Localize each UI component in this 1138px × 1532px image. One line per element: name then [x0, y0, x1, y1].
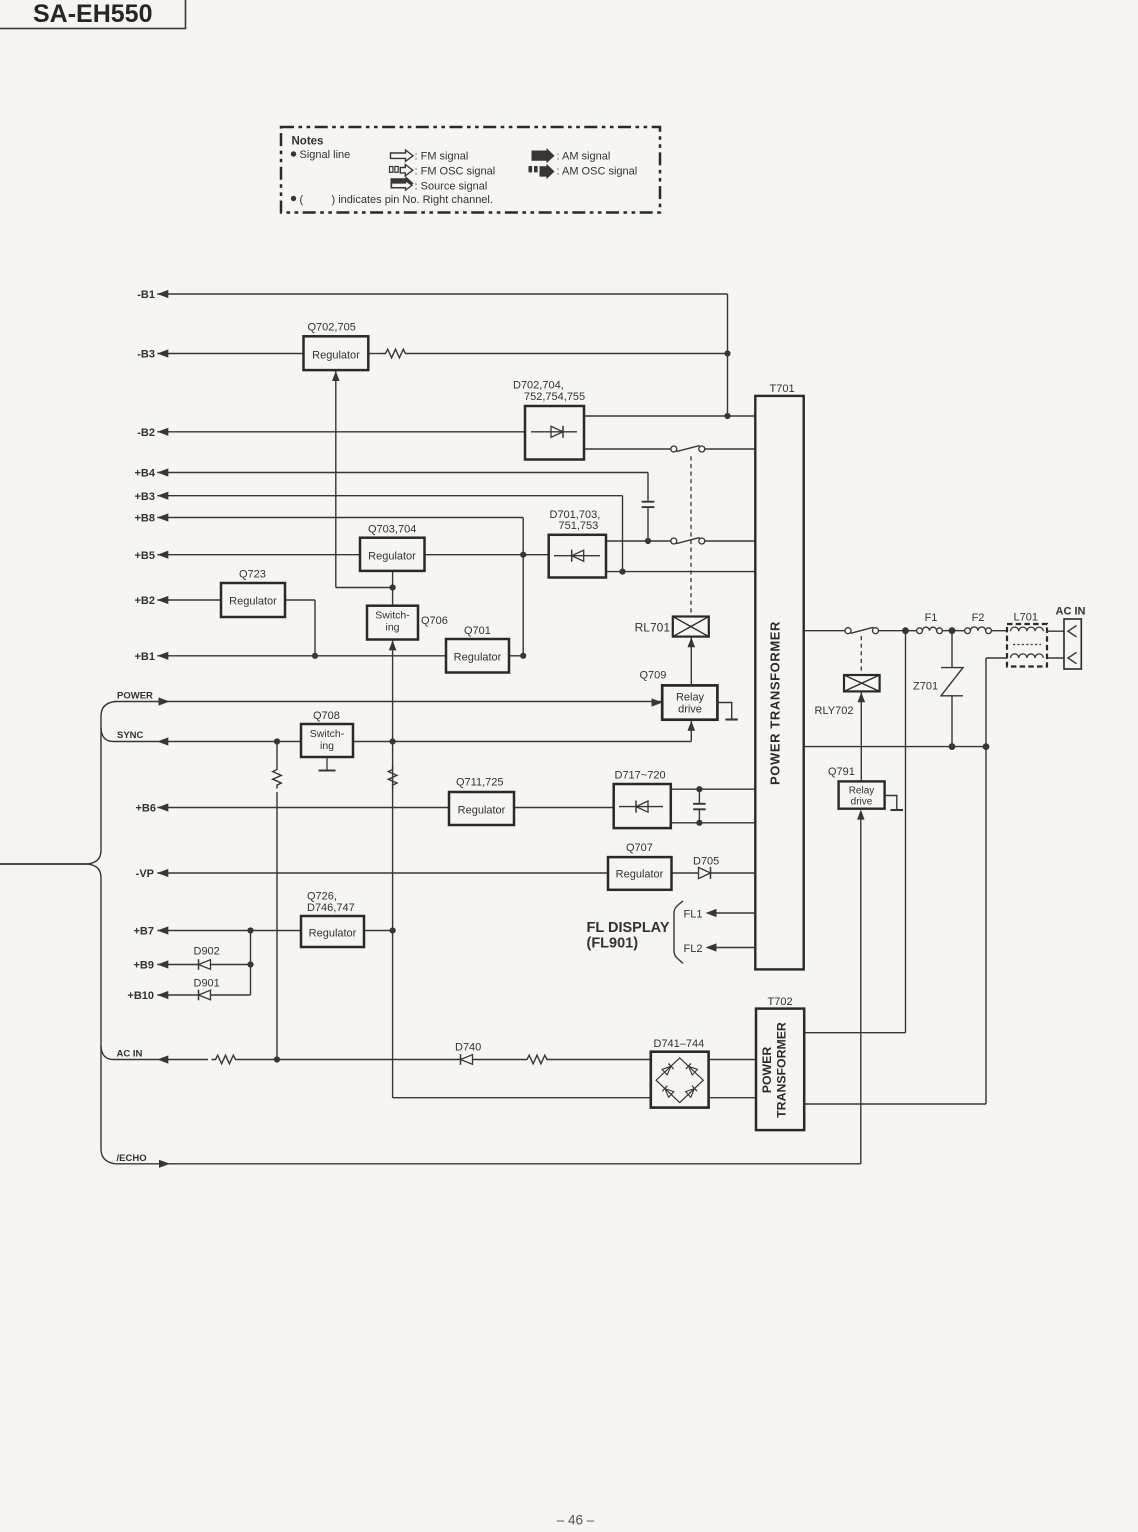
- fuse F2: [965, 628, 971, 634]
- wire T702 right top: [804, 1032, 905, 1034]
- svg-text:Q711,725: Q711,725: [456, 777, 504, 789]
- switch S2 on D701 line: [671, 538, 677, 544]
- wire -VP regulator to D705: [672, 872, 699, 874]
- svg-text:AC IN: AC IN: [117, 1049, 143, 1060]
- svg-text:T701: T701: [770, 383, 795, 395]
- node +B7/x392 junction: [390, 927, 396, 933]
- wire F1 to F2: [942, 630, 964, 632]
- svg-text:Regulator: Regulator: [368, 551, 416, 563]
- svg-text:– 46 –: – 46 –: [557, 1513, 595, 1528]
- arrow SYNC: [157, 737, 168, 745]
- svg-text:+B5: +B5: [135, 550, 156, 562]
- power transformer T701: [755, 396, 803, 970]
- regulator Q701: [446, 639, 509, 673]
- wire +B7 regulator to bus: [364, 930, 393, 932]
- arrow POWER into Q709: [652, 698, 663, 706]
- notes signal line bullet: [291, 151, 296, 156]
- svg-text:FL DISPLAY: FL DISPLAY: [587, 920, 670, 936]
- svg-text:POWER: POWER: [760, 1047, 774, 1094]
- node capacitor/S2 junction: [645, 538, 651, 544]
- svg-text:D705: D705: [693, 855, 719, 867]
- svg-text:Regulator: Regulator: [309, 928, 357, 940]
- svg-text:FL1: FL1: [684, 909, 703, 921]
- mains switch S3: [845, 628, 851, 634]
- arrow POWER: [159, 697, 170, 705]
- wire to bridge: [551, 1059, 651, 1061]
- wire Q709 to RL701: [690, 638, 692, 686]
- wire L701 to AC connector top: [1047, 630, 1064, 632]
- wire /ECHO: [116, 1163, 861, 1165]
- arrow -B1: [157, 290, 168, 298]
- svg-text:: AM OSC signal: : AM OSC signal: [557, 166, 638, 178]
- node cap top junction: [696, 786, 702, 792]
- svg-text:: Source signal: : Source signal: [415, 181, 488, 193]
- svg-text:ing: ing: [320, 740, 334, 752]
- svg-text:F1: F1: [925, 612, 938, 624]
- wire +B4: [157, 472, 648, 474]
- svg-text:) indicates pin No. Right chan: ) indicates pin No. Right channel.: [332, 194, 493, 206]
- svg-text:751,753: 751,753: [559, 520, 599, 532]
- svg-text:ing: ing: [385, 622, 399, 634]
- svg-text:(FL901): (FL901): [587, 936, 639, 952]
- wire D701 top output to switch S2: [606, 540, 671, 542]
- wire POWER: [114, 701, 663, 703]
- node +B3/D701 junction: [619, 569, 625, 575]
- svg-text:-B3: -B3: [137, 349, 155, 361]
- svg-text:D702,704,: D702,704,: [513, 380, 564, 392]
- svg-text:-B1: -B1: [137, 289, 155, 301]
- wire -B1: [157, 293, 727, 295]
- wire D717 top output: [671, 788, 756, 790]
- svg-text:+B9: +B9: [134, 960, 155, 972]
- resistor on x392 bus: [388, 766, 397, 789]
- wire T702 right bottom: [804, 1103, 986, 1105]
- wire -B2: [157, 431, 525, 433]
- svg-text:+B6: +B6: [136, 802, 157, 814]
- wire D901 to branch corner: [211, 994, 251, 996]
- legend FM OSC squares: [390, 167, 393, 173]
- wire Q791 to RLY702: [860, 691, 862, 700]
- regulator Q702,705: [304, 336, 369, 370]
- wire bus corner to bridge bottom: [393, 1097, 651, 1099]
- diode block D717~720: [614, 784, 671, 828]
- node mains junction x905: [902, 627, 909, 634]
- wire +B10 left: [157, 994, 198, 996]
- svg-text:POWER: POWER: [117, 690, 153, 701]
- svg-text:D740: D740: [455, 1042, 481, 1054]
- ground below Q708: [326, 757, 328, 771]
- node mains junction x952: [949, 627, 956, 634]
- svg-text:Q723: Q723: [239, 569, 266, 581]
- svg-text:AC IN: AC IN: [1056, 606, 1086, 618]
- arrow /ECHO: [159, 1160, 170, 1168]
- node AC IN/x277 junction: [274, 1056, 280, 1062]
- node L701 return junction: [983, 743, 990, 750]
- svg-text:Q708: Q708: [313, 710, 340, 722]
- svg-text:+B3: +B3: [135, 491, 156, 503]
- svg-text:D902: D902: [194, 946, 220, 958]
- regulator Q726,D746,747: [301, 916, 364, 947]
- wire branch up to Q702: [335, 370, 337, 587]
- svg-text:Relay: Relay: [849, 786, 875, 797]
- wire -VP left: [157, 872, 608, 874]
- regulator Q703,704: [360, 538, 425, 571]
- svg-text:Signal line: Signal line: [300, 149, 351, 161]
- node Q706 branch junction: [390, 584, 396, 590]
- wire L701 bottom to corner: [986, 657, 1007, 659]
- legend AM OSC squares: [529, 166, 533, 172]
- diode block D701,703,751,753: [549, 535, 606, 578]
- svg-text:752,754,755: 752,754,755: [524, 391, 585, 403]
- arrow +B6: [157, 803, 168, 811]
- arrow -B2: [157, 428, 168, 436]
- ground right of Q709: [717, 703, 731, 720]
- svg-text:+B8: +B8: [135, 513, 156, 525]
- diode D740: [461, 1055, 473, 1065]
- arrow +B4: [157, 468, 168, 476]
- notes legend box: [281, 127, 660, 213]
- svg-text:F2: F2: [972, 612, 985, 624]
- arrow +B2: [157, 596, 168, 604]
- diode D705: [699, 867, 711, 878]
- resistor on AC IN right: [523, 1055, 551, 1064]
- wire Q706 down to bus: [392, 640, 394, 1098]
- node +B2/+B1 junction: [312, 653, 318, 659]
- relay coil RLY702: [844, 675, 880, 691]
- svg-text:/ECHO: /ECHO: [117, 1153, 147, 1164]
- wire -B1 vertical to D702 output: [727, 294, 729, 416]
- resistor on x277 bus: [276, 742, 278, 767]
- svg-text:+B7: +B7: [134, 926, 155, 938]
- svg-text:Q709: Q709: [640, 670, 667, 682]
- svg-text:Z701: Z701: [913, 681, 938, 693]
- wire /ECHO up into Q791: [860, 819, 862, 1164]
- svg-text:Switch-: Switch-: [375, 610, 410, 622]
- svg-text:SYNC: SYNC: [117, 730, 144, 741]
- svg-text:D717~720: D717~720: [615, 770, 666, 782]
- wire +B9 left: [157, 964, 198, 966]
- arrow +B7: [157, 926, 168, 934]
- switching Q706: [367, 606, 418, 640]
- svg-text:FL2: FL2: [684, 943, 703, 955]
- wire FL2: [717, 947, 756, 949]
- wire -B3 to junction: [410, 353, 728, 355]
- svg-text:Q703,704: Q703,704: [368, 524, 416, 536]
- regulator Q707: [608, 857, 672, 890]
- svg-text:L701: L701: [1014, 612, 1038, 624]
- fuse F1: [917, 628, 923, 634]
- arrow into RL701: [688, 637, 696, 647]
- svg-text:RLY702: RLY702: [815, 705, 854, 717]
- svg-text:SA-EH550: SA-EH550: [33, 0, 153, 28]
- svg-text:Switch-: Switch-: [310, 728, 345, 740]
- legend AM signal arrow: [532, 148, 555, 163]
- power transformer T702: [756, 1009, 804, 1131]
- svg-text:drive: drive: [851, 797, 873, 808]
- regulator Q723: [221, 583, 285, 617]
- wire AC IN left: [114, 1059, 209, 1061]
- capacitor C1: [642, 501, 655, 503]
- arrow +B1: [157, 652, 168, 660]
- svg-text:(: (: [300, 194, 304, 206]
- wire bridge to T702 bottom: [709, 1097, 756, 1099]
- wire SYNC: [114, 741, 692, 743]
- wire bridge to T702 top: [709, 1059, 756, 1061]
- svg-text:Notes: Notes: [292, 136, 324, 148]
- node -B1/-B3 junction: [724, 350, 730, 356]
- wire +B2 regulator to corner: [285, 599, 315, 601]
- node SYNC/x277 junction: [274, 738, 280, 744]
- wire +B7 left: [157, 930, 301, 932]
- svg-text:D746,747: D746,747: [307, 902, 355, 914]
- wire D702 top output to transformer: [584, 415, 755, 417]
- wire +B7 branch vertical: [250, 931, 252, 996]
- svg-text:Relay: Relay: [676, 692, 705, 704]
- wire D717 bottom output: [671, 822, 756, 824]
- svg-text:drive: drive: [678, 704, 702, 716]
- FL brace: [674, 901, 683, 964]
- dashed link S3 to RLY702: [860, 636, 862, 675]
- switch S1 on D702 line: [671, 446, 677, 452]
- wire L701 return vertical: [985, 658, 987, 1104]
- node SYNC/x392 junction: [390, 738, 396, 744]
- wire +B8 down to +B1 corner: [522, 518, 524, 656]
- arrow FL1: [706, 909, 717, 917]
- arrow into Q709 bottom: [688, 721, 696, 731]
- wire -B3 left: [157, 353, 303, 355]
- arrow +B5: [157, 551, 168, 559]
- svg-text:D741–744: D741–744: [654, 1038, 705, 1050]
- wire branch to Q702 horizontal: [336, 587, 393, 589]
- wire +B5 left: [157, 554, 360, 556]
- wire D705 to transformer: [711, 872, 755, 874]
- wire +B5 regulator to D701: [425, 554, 549, 556]
- wire D701 bottom output to transformer: [606, 571, 756, 573]
- title box SA-EH550: [0, 0, 186, 29]
- relay drive Q709: [662, 685, 717, 719]
- wire L701 to AC connector bottom: [1047, 657, 1064, 659]
- line filter L701: [1007, 624, 1047, 667]
- wire switch S1 to transformer: [705, 448, 756, 450]
- svg-text:: AM signal: : AM signal: [557, 151, 611, 163]
- relay coil RL701: [673, 617, 709, 637]
- wire +B3: [157, 495, 622, 497]
- dashed link RL701 to switches: [690, 454, 692, 613]
- wire +B6 regulator to D717: [514, 807, 614, 809]
- bridge rectifier D741-744: [651, 1052, 709, 1108]
- svg-text:-B2: -B2: [137, 427, 155, 439]
- node +B1 corner: [520, 653, 526, 659]
- arrow into Q706: [389, 640, 397, 650]
- svg-text:-VP: -VP: [136, 868, 154, 880]
- ground right of Q791: [885, 796, 897, 811]
- node +B8/+B5 junction: [520, 552, 526, 558]
- wire +B2 corner down to +B1: [314, 600, 316, 656]
- wire capacitor to switch line: [647, 508, 649, 541]
- node +B9 branch: [247, 961, 253, 967]
- wire D740 to resistor: [473, 1059, 524, 1061]
- wire +B1 left: [157, 655, 446, 657]
- switching Q708: [301, 724, 353, 757]
- svg-text:RL701: RL701: [635, 620, 671, 634]
- arrow +B10: [157, 991, 168, 999]
- svg-text:Regulator: Regulator: [312, 350, 360, 362]
- legend Source signal arrow: [391, 176, 414, 191]
- arrow into Q702: [332, 371, 340, 381]
- capacitor C2: [698, 789, 700, 803]
- resistor on -B3: [382, 349, 410, 358]
- wire +B2 left: [157, 599, 221, 601]
- wire F2 to L701: [991, 630, 1007, 632]
- svg-text:Q706: Q706: [421, 615, 448, 627]
- svg-text:POWER TRANSFORMER: POWER TRANSFORMER: [768, 621, 783, 785]
- svg-text:Regulator: Regulator: [229, 596, 277, 608]
- arrow +B3: [157, 492, 168, 500]
- varistor Z701: [951, 631, 953, 668]
- svg-text:Q791: Q791: [828, 766, 855, 778]
- svg-text:: FM signal: : FM signal: [415, 151, 469, 163]
- arrow +B8: [157, 513, 168, 521]
- diode block D702,704,752,754,755: [525, 406, 584, 460]
- wire AC IN mid: [240, 1059, 461, 1061]
- wire +B6 left: [157, 807, 449, 809]
- arrow -VP: [157, 869, 168, 877]
- wire SYNC up into Q709: [690, 721, 692, 742]
- node cap bottom junction: [696, 820, 702, 826]
- arrow -B3: [157, 349, 168, 357]
- arrow +B9: [157, 960, 168, 968]
- svg-text:TRANSFORMER: TRANSFORMER: [775, 1022, 789, 1118]
- svg-text:Q702,705: Q702,705: [308, 322, 356, 334]
- wire x905 down to T702: [905, 631, 907, 1033]
- wire T701 to mains switch: [804, 630, 845, 632]
- arrow FL2: [706, 943, 717, 951]
- svg-text:D701,703,: D701,703,: [550, 509, 601, 521]
- wire D902 to branch: [211, 964, 251, 966]
- wire D702 bottom output to switch: [584, 448, 671, 450]
- node -B1/D702 junction: [724, 413, 730, 419]
- wire T701 right return: [804, 746, 986, 748]
- svg-text:Q726,: Q726,: [307, 891, 337, 903]
- notes pin number bullet: [291, 196, 296, 201]
- svg-text:D901: D901: [194, 978, 220, 990]
- relay drive Q791: [839, 781, 885, 808]
- node Z701 return junction: [949, 743, 956, 750]
- legend AM OSC arrow: [540, 164, 555, 179]
- arrow AC IN: [157, 1055, 168, 1063]
- legend FM signal arrow: [391, 150, 414, 161]
- wire switch S2 to transformer: [705, 540, 756, 542]
- regulator Q711,725: [449, 792, 514, 825]
- wire +B1 regulator to corner: [509, 655, 523, 657]
- svg-text:+B10: +B10: [127, 990, 154, 1002]
- legend FM OSC arrow: [400, 165, 413, 176]
- diode D901: [199, 990, 211, 1000]
- AC IN connector: [1064, 619, 1081, 669]
- left harness brace: [0, 702, 116, 864]
- svg-text:+B2: +B2: [135, 595, 156, 607]
- svg-text:+B1: +B1: [135, 651, 156, 663]
- wire Q703 to Q706 vertical: [392, 571, 394, 606]
- wire +B4 down to capacitor: [647, 473, 649, 502]
- wire switch to F1: [879, 630, 917, 632]
- svg-text:Regulator: Regulator: [616, 869, 664, 881]
- resistor on AC IN: [212, 1055, 240, 1064]
- diode D902: [199, 960, 211, 970]
- svg-text:Q707: Q707: [626, 842, 653, 854]
- svg-text:+B4: +B4: [135, 468, 156, 480]
- svg-text:T702: T702: [768, 996, 793, 1008]
- node +B7 branch: [247, 927, 253, 933]
- svg-text:: FM OSC signal: : FM OSC signal: [415, 166, 496, 178]
- wire -B3 right of regulator: [368, 353, 381, 355]
- svg-text:Regulator: Regulator: [458, 805, 506, 817]
- wire +B8: [157, 517, 523, 519]
- svg-text:Q701: Q701: [464, 625, 491, 637]
- wire +B3 down to D701 output: [622, 496, 624, 572]
- wire FL1: [717, 912, 756, 914]
- svg-text:Regulator: Regulator: [454, 652, 502, 664]
